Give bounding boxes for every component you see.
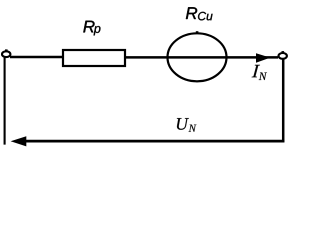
resistor label R_p : R [83,21,94,33]
left terminal [2,51,10,57]
voltage label U_N : subscript N [189,125,197,132]
resistor label R_p : subscript p [94,26,101,35]
right terminal [279,53,287,59]
current arrowhead I_N [256,53,270,63]
current label I_N : I [252,65,260,77]
anchor tick top of circle [196,31,199,33]
bottom wire U_N [24,140,284,143]
right vertical wire [282,59,285,142]
voltage label U_N : U [177,118,189,130]
winding label R_Cu : subscript u [207,14,213,20]
resistor R_p body [63,50,125,66]
anchor tick right terminal [282,51,285,53]
left vertical wire [4,57,6,144]
wire: left terminal to resistor [10,56,63,59]
winding label R_Cu : R [186,7,197,19]
wire: resistor through circle to right terminal [125,56,278,59]
winding resistance R_Cu circle [168,33,227,81]
voltage arrowhead U_N pointing left [11,136,27,146]
anchor tick left terminal [5,49,8,51]
anchor tick bottom of circle [196,81,199,83]
current label I_N : subscript N [259,72,267,80]
winding label R_Cu : subscript C [198,12,206,20]
